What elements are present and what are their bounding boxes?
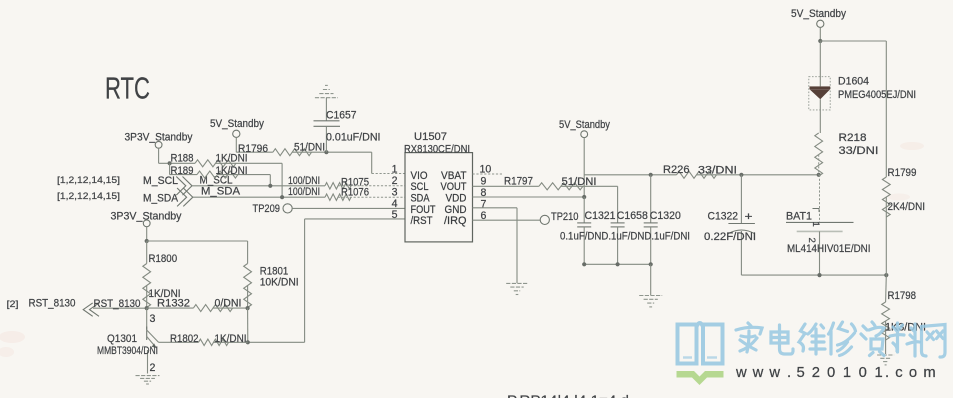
svg-text:1K3/DNI: 1K3/DNI [885, 322, 926, 334]
IC U1507 RX8130CE/DNI chip box [404, 131, 473, 242]
svg-text:0.22F/DNI: 0.22F/DNI [704, 231, 756, 243]
svg-text:FOUT: FOUT [411, 204, 436, 216]
svg-text:0/DNI: 0/DNI [215, 298, 242, 310]
pin names right [441, 170, 467, 227]
svg-text:[2]: [2] [7, 299, 19, 310]
watermark char xiu [829, 322, 856, 356]
svg-text:R1800: R1800 [149, 253, 178, 265]
resistor R1799 [882, 167, 925, 275]
capacitor C1322 [704, 175, 756, 275]
capacitor C1320 [644, 175, 681, 264]
svg-text:TP209: TP209 [253, 203, 281, 215]
svg-text:[1,2,12,14,15]: [1,2,12,14,15] [57, 191, 120, 202]
svg-text:7: 7 [481, 198, 487, 210]
resistor R1796 [236, 142, 326, 156]
wire RST_8130 [93, 298, 147, 310]
sheet refs [1,2,12,14,15] [57, 175, 120, 202]
svg-text:R1332: R1332 [157, 298, 190, 310]
svg-text:51/DNI: 51/DNI [294, 142, 325, 154]
ground caps [639, 296, 662, 307]
svg-text:5V_Standby: 5V_Standby [791, 8, 847, 20]
svg-text:M_SDA: M_SDA [201, 186, 241, 198]
svg-text:0101: 0101 [827, 365, 890, 381]
junction R1802 right [246, 340, 250, 344]
power 3P3V_Standby (bottom) [111, 211, 183, 241]
svg-text:3P3V_Standby: 3P3V_Standby [111, 211, 183, 223]
svg-text:RST_8130: RST_8130 [29, 298, 76, 310]
resistor R189 [170, 163, 271, 186]
resistor R1797 [473, 176, 618, 190]
svg-text:5V_Standby: 5V_Standby [210, 118, 265, 130]
wire R1332 node down [247, 308, 249, 342]
svg-text:RTC: RTC [105, 72, 150, 106]
watermark url www.520101.com [735, 365, 942, 381]
junction R1799 bottom [884, 273, 888, 277]
battery BAT1 [786, 175, 871, 275]
svg-text:SDA: SDA [411, 192, 431, 204]
pin numbers left 1-5 [392, 164, 398, 222]
resistor R1075 [288, 175, 369, 189]
svg-text:C1321: C1321 [585, 210, 616, 222]
svg-text:2K4/DNI: 2K4/DNI [888, 201, 926, 213]
svg-text:GND: GND [445, 204, 467, 216]
svg-text:R218: R218 [839, 132, 867, 144]
watermark char zi [861, 322, 884, 356]
pin numbers right 10-6 [480, 164, 492, 222]
svg-text:2: 2 [392, 175, 398, 187]
svg-text:TP210: TP210 [551, 211, 579, 223]
junction C1320 top [649, 173, 653, 177]
watermark char wang [922, 325, 946, 358]
power 3P3V_Standby (top) [125, 132, 194, 164]
resistor R1802 [159, 333, 248, 346]
wire R1796 to pin1 [326, 152, 405, 173]
ground above C1657 (inverted) [315, 85, 338, 97]
junction M_SCL/R189 [268, 184, 272, 188]
svg-text:R1797: R1797 [504, 176, 533, 188]
transistor Q1301 [97, 308, 159, 374]
watermark char liao [890, 323, 920, 356]
watermark book icon [678, 323, 723, 364]
ground R1798 [877, 355, 894, 365]
capacitor C1321 [577, 197, 615, 264]
svg-text:/IRQ: /IRQ [444, 215, 467, 227]
svg-text:R1799: R1799 [888, 167, 917, 179]
wire pin5 /RST down [248, 219, 405, 342]
svg-text:51/DNI: 51/DNI [562, 176, 597, 188]
junction rail C1320 [649, 262, 653, 266]
svg-text:33/DNI: 33/DNI [698, 165, 737, 177]
junction bat bottom [817, 273, 821, 277]
scan artifact smudge right [888, 142, 924, 201]
svg-text:C1658: C1658 [617, 210, 648, 222]
test point TP210 [473, 211, 579, 224]
resistor R1801 [244, 264, 299, 309]
junction C1657 [324, 150, 328, 154]
wire 3P3V to R1801 [147, 241, 248, 264]
svg-text:C1657: C1657 [326, 109, 357, 121]
svg-text:1K/DNI: 1K/DNI [216, 165, 248, 177]
svg-text:R1798: R1798 [888, 290, 917, 302]
svg-text:R189: R189 [171, 165, 194, 177]
watermark char jia [736, 323, 762, 352]
svg-text:Q1301: Q1301 [107, 333, 137, 345]
power 5V_Standby (top right) [791, 8, 847, 41]
watermark char wei [799, 324, 825, 354]
junction R189 tap [168, 161, 172, 165]
svg-text:3: 3 [150, 313, 156, 325]
svg-text:1: 1 [810, 222, 821, 227]
wire M_SDA [193, 196, 325, 198]
svg-text:5: 5 [392, 209, 398, 221]
svg-text:RX8130CE/DNI: RX8130CE/DNI [404, 143, 470, 155]
power 5V_Standby (middle) [559, 119, 611, 197]
svg-text:2: 2 [150, 362, 156, 374]
svg-text:R1796: R1796 [238, 143, 268, 155]
diode D1604 [809, 41, 916, 133]
watermark book base green [677, 371, 724, 385]
svg-text:4: 4 [392, 198, 398, 210]
svg-text:1: 1 [392, 164, 398, 176]
wire pin7 GND [473, 208, 518, 283]
svg-text:R1802: R1802 [170, 333, 199, 345]
svg-text:VOUT: VOUT [441, 181, 467, 193]
svg-text:www: www [735, 365, 786, 381]
wire bottom rail [741, 274, 886, 276]
test point TP209 [253, 203, 406, 215]
pin3 stub [338, 196, 405, 198]
svg-text:52: 52 [797, 365, 827, 381]
svg-text:D1604: D1604 [838, 76, 869, 88]
svg-text:+: + [745, 211, 753, 223]
resistor R226 [663, 164, 819, 178]
svg-text:P,RP14|4,|4,1=4 d: P,RP14|4,|4,1=4 d [507, 392, 629, 398]
junction rail C1658 [616, 262, 620, 266]
svg-text:2: 2 [806, 238, 817, 243]
resistor R1800 [143, 241, 181, 308]
svg-text:.: . [787, 365, 791, 381]
wire VBAT rail [584, 174, 676, 176]
wire pin8 VDD [473, 196, 585, 198]
svg-text:ML414HIV01E/DNI: ML414HIV01E/DNI [787, 243, 871, 255]
svg-text:R226: R226 [663, 164, 690, 176]
wire rail to ground [650, 264, 652, 295]
pin names left [411, 170, 436, 227]
resistor R218 [815, 132, 879, 176]
wire cap ground rail [584, 263, 651, 265]
junction 3P3V bottom [145, 239, 149, 243]
junction battery top [817, 173, 821, 177]
svg-text:0.01uF/DNI: 0.01uF/DNI [326, 132, 381, 144]
svg-text:RST_8130: RST_8130 [94, 298, 141, 310]
wire top right branch [820, 41, 886, 177]
svg-text:MMBT3904/DNI: MMBT3904/DNI [97, 345, 158, 357]
ground pin7 [506, 283, 528, 294]
resistor R1076 [288, 186, 369, 200]
watermark char dian [771, 325, 793, 354]
junction RST node [145, 306, 149, 310]
svg-text:0.1uF/DND.1uF/DND.1uF/DNI: 0.1uF/DND.1uF/DND.1uF/DNI [560, 230, 690, 242]
junction C1322 top [739, 173, 743, 177]
junction M_SDA/R188 [280, 195, 284, 199]
ground Q1301 [136, 376, 160, 384]
svg-text:/RST: /RST [411, 215, 433, 227]
svg-text:VIO: VIO [411, 170, 428, 182]
junction R1332/R1801 [246, 306, 250, 310]
svg-text:100/DNI: 100/DNI [288, 186, 320, 198]
capacitor C1658 [611, 186, 648, 264]
svg-text:VBAT: VBAT [441, 170, 467, 182]
svg-text:R188: R188 [171, 153, 194, 165]
svg-text:VDD: VDD [446, 192, 467, 204]
input chevron M_SCL [176, 177, 192, 196]
capacitor C1657 [314, 98, 381, 153]
scan artifact smudge left [0, 331, 25, 357]
svg-text:U1507: U1507 [414, 131, 447, 143]
svg-text:5V_Standby: 5V_Standby [559, 119, 611, 131]
power 5V_Standby (left) [210, 118, 265, 152]
svg-text:33/DNI: 33/DNI [839, 145, 879, 157]
resistor R188 [159, 153, 283, 198]
svg-text:[1,2,12,14,15]: [1,2,12,14,15] [57, 175, 120, 186]
svg-text:10K/DNI: 10K/DNI [260, 276, 299, 288]
svg-text:C1322: C1322 [708, 211, 739, 223]
svg-text:BAT1: BAT1 [786, 211, 812, 223]
svg-text:C1320: C1320 [650, 210, 681, 222]
wire M_SCL [192, 185, 325, 187]
junction VDD 5V [582, 195, 586, 199]
output chevron RST_8130 [83, 303, 99, 316]
junction 5V top right [818, 39, 822, 43]
pin2 stub [338, 185, 405, 187]
resistor R1332 [147, 298, 248, 312]
input chevron M_SDA [177, 188, 193, 206]
svg-text:M_SDA: M_SDA [143, 193, 179, 205]
junction rail C1321 [582, 262, 586, 266]
resistor R1798 [882, 275, 926, 354]
svg-text:PMEG4005EJ/DNI: PMEG4005EJ/DNI [838, 89, 916, 101]
pin10 VBAT dashed stub [473, 173, 503, 175]
svg-text:SCL: SCL [411, 181, 429, 193]
svg-text:3: 3 [392, 187, 398, 199]
svg-text:.com: .com [885, 365, 942, 381]
svg-text:1K/DNI: 1K/DNI [215, 333, 247, 345]
